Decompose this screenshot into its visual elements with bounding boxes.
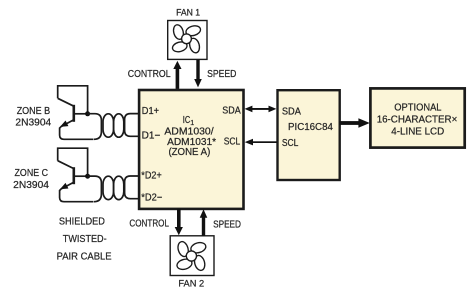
junction dot zone B <box>85 111 90 116</box>
svg-text:D1+: D1+ <box>142 106 159 117</box>
svg-text:2N3904: 2N3904 <box>15 117 51 128</box>
transistor Q1 base lead <box>74 113 88 115</box>
svg-text:ADM1030/: ADM1030/ <box>164 126 214 137</box>
CONTROL label top <box>128 69 171 80</box>
FAN 2 box <box>170 236 214 276</box>
PIC16C84 labels <box>282 106 334 148</box>
CONTROL arrow fan2 (down) <box>175 209 183 235</box>
svg-text:16-CHARACTER×: 16-CHARACTER× <box>377 114 458 125</box>
transistor Q2 collector lead <box>58 161 74 169</box>
twisted pair zone B ellipse 1 <box>103 114 114 137</box>
shielded twisted-pair cable label <box>57 217 112 263</box>
svg-text:*D2−: *D2− <box>141 192 162 203</box>
svg-text:(ZONE A): (ZONE A) <box>168 147 210 158</box>
svg-text:FAN 1: FAN 1 <box>176 6 200 17</box>
twisted pair zone C ellipse 1 <box>103 176 114 199</box>
pin D1- label <box>142 130 161 141</box>
ZONE B label <box>15 106 51 129</box>
SCL wire arrow (to IC) <box>245 139 277 146</box>
twisted pair zone C left lobe <box>88 176 102 202</box>
FAN 1 box <box>168 21 207 60</box>
transistor Q2 emitter with arrow <box>58 182 73 192</box>
SPEED label bottom <box>213 219 241 230</box>
transistor Q1 emitter with arrow <box>58 120 73 130</box>
svg-text:*D2+: *D2+ <box>141 171 162 182</box>
emitter wire zone B <box>60 127 94 140</box>
pin SCL label (IC) <box>224 137 241 148</box>
svg-text:PAIR CABLE: PAIR CABLE <box>57 251 112 262</box>
svg-text:2N3904: 2N3904 <box>13 180 49 191</box>
emitter wire zone C <box>60 189 94 202</box>
transistor Q1 collector lead <box>58 98 74 106</box>
SPEED label top <box>207 69 236 80</box>
SPEED arrow fan1 (down) <box>194 60 202 88</box>
CONTROL arrow fan1 (up) <box>173 61 181 89</box>
twisted pair zone C right lobe with stubs to D2 pins <box>125 176 140 199</box>
pin *D2+ label <box>141 171 162 182</box>
FAN 2 label <box>178 278 204 289</box>
svg-text:CONTROL: CONTROL <box>128 69 171 80</box>
transistor Q2 base lead <box>74 175 88 177</box>
LCD labels <box>377 102 458 137</box>
svg-text:SDA: SDA <box>282 106 301 117</box>
pin *D2- label <box>141 192 162 203</box>
svg-text:SDA: SDA <box>222 106 241 117</box>
svg-text:SPEED: SPEED <box>207 69 236 80</box>
junction dot zone C <box>85 174 90 179</box>
SDA bus arrow (bidirectional) <box>245 106 277 113</box>
transistor Q1 2N3904 (ZONE B) collector loop wire <box>58 86 88 114</box>
twisted pair zone C ellipse 2 <box>114 176 124 199</box>
svg-text:OPTIONAL: OPTIONAL <box>394 102 442 113</box>
ZONE C label <box>13 168 49 191</box>
svg-text:4-LINE LCD: 4-LINE LCD <box>391 127 444 138</box>
CONTROL label bottom <box>129 219 169 230</box>
svg-text:ZONE B: ZONE B <box>17 106 51 117</box>
PIC to LCD thick arrow <box>340 118 370 127</box>
SPEED arrow fan2 (up) <box>200 209 208 236</box>
IC U1 ADM1030/ADM1031 box <box>139 90 243 209</box>
FAN 2 blades icon <box>176 240 207 271</box>
svg-text:FAN 2: FAN 2 <box>178 278 204 289</box>
svg-text:SCL: SCL <box>224 137 241 148</box>
LCD box <box>370 88 464 147</box>
IC U1 name labels <box>164 115 216 158</box>
svg-text:TWISTED-: TWISTED- <box>63 234 107 245</box>
svg-text:PIC16C84: PIC16C84 <box>288 122 333 133</box>
svg-text:SPEED: SPEED <box>213 219 241 230</box>
svg-text:CONTROL: CONTROL <box>129 219 169 230</box>
twisted pair zone B right lobe with stubs to D1 pins <box>125 114 140 137</box>
transistor Q1 base bar <box>73 105 76 122</box>
FAN 1 blades icon <box>171 24 201 54</box>
twisted pair zone B left lobe <box>88 114 102 140</box>
svg-text:SHIELDED: SHIELDED <box>59 217 105 228</box>
svg-text:D1−: D1− <box>142 130 161 141</box>
svg-text:ZONE C: ZONE C <box>15 168 49 179</box>
PIC16C84 box U2 <box>278 90 340 180</box>
FAN 1 label <box>176 6 200 17</box>
twisted pair zone B ellipse 2 <box>114 114 124 137</box>
transistor Q2 2N3904 (ZONE C) collector loop wire <box>58 148 88 176</box>
transistor Q2 base bar <box>73 167 76 184</box>
pin D1+ label <box>142 106 159 117</box>
svg-text:SCL: SCL <box>282 138 299 149</box>
pin SDA label (IC) <box>222 106 241 117</box>
